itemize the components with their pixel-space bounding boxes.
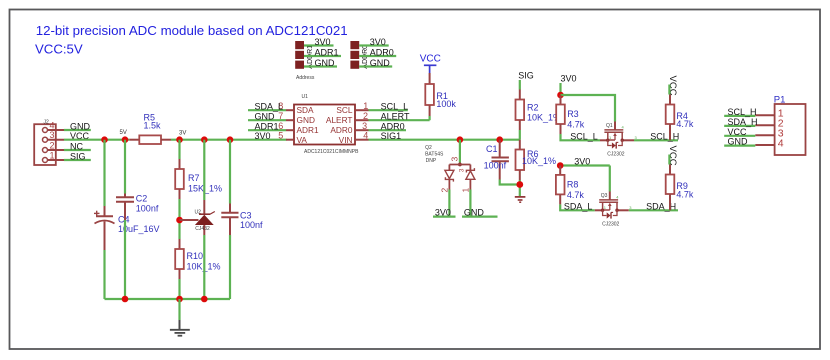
svg-text:SDA_H: SDA_H [728,117,758,127]
capacitor C1 [484,140,509,180]
svg-text:4: 4 [363,130,368,140]
svg-text:C4: C4 [118,215,130,225]
connector P1 [755,95,805,156]
svg-text:Address: Address [296,75,315,81]
svg-text:SCL_L: SCL_L [570,131,598,141]
capacitor C3 [221,204,263,236]
svg-text:4.7k: 4.7k [567,120,585,130]
wire Q2 pin1 to GND [469,190,471,217]
svg-text:4.7k: 4.7k [676,119,694,129]
svg-text:10K_1%: 10K_1% [522,156,556,166]
svg-text:1: 1 [363,101,368,111]
svg-text:SIG1: SIG1 [381,131,402,141]
svg-text:SCL: SCL [336,105,353,115]
svg-text:SCL_L: SCL_L [381,101,409,111]
svg-text:GND: GND [315,58,336,68]
svg-text:3V0: 3V0 [561,74,577,84]
svg-text:R8: R8 [567,179,579,189]
svg-text:100nf: 100nf [484,161,507,171]
IC U1 ADC121C021 [278,94,368,155]
svg-text:4: 4 [50,120,55,130]
svg-text:12-bit precision ADC module ba: 12-bit precision ADC module based on ADC… [36,23,348,38]
junction at R7 top [176,136,183,143]
svg-text:Q3: Q3 [601,193,608,199]
svg-text:R2: R2 [527,103,539,113]
wire Q2 pin2 to 3V0 [448,190,450,217]
svg-text:SDA_L: SDA_L [564,201,593,211]
svg-text:3V0: 3V0 [370,37,386,47]
resistor R4 [666,95,694,141]
svg-text:SDA_H: SDA_H [646,201,676,211]
svg-text:NC: NC [70,141,83,151]
node SCL_L (U1 pin1) [369,101,409,111]
ground symbol (under R6) [515,197,526,202]
wire ADDR0 pin1 to 3V0 [359,44,389,46]
junction bottom rail R10/ground [176,296,183,303]
svg-text:J2: J2 [44,120,50,126]
wire U2 anode to bottom rail [203,235,205,299]
resistor R3 [556,95,585,134]
svg-text:VCC:5V: VCC:5V [35,42,83,57]
svg-text:VCC: VCC [420,54,441,65]
wire R7 top [178,140,180,159]
svg-text:SDA_L: SDA_L [255,101,284,111]
svg-text:C1: C1 [486,144,498,154]
svg-text:1: 1 [460,188,470,193]
svg-text:DNP: DNP [426,158,437,164]
shunt reference U2 CJ432 [195,200,215,235]
junction at C4 top [101,136,108,143]
svg-text:GND: GND [464,207,485,217]
junction at C2 top [122,136,129,143]
svg-text:100nf: 100nf [240,220,263,230]
node GND (U1 pin7) [248,111,286,121]
wire C4 column [103,140,105,206]
resistor R5 [129,112,171,144]
ground symbol (main) [170,320,190,336]
svg-text:ADR0: ADR0 [330,125,353,135]
svg-text:4.7k: 4.7k [567,190,585,200]
wire R2 to SIG1 rail [519,130,521,140]
junction at U2 top [201,136,208,143]
junction C1/R6/ground [516,181,523,188]
svg-text:1.5k: 1.5k [144,120,162,130]
svg-text:5: 5 [278,130,283,140]
svg-text:C2: C2 [136,194,148,204]
svg-text:3: 3 [50,130,55,140]
svg-text:U1: U1 [302,94,309,100]
resistor R8 [556,166,585,205]
transistor Q3 CJ2302 [595,192,633,228]
wire ADDR0 pin2 to ADR0 [359,55,396,57]
wire ADDR1 pin2 to ADR1 [304,55,341,57]
svg-text:4: 4 [616,195,619,200]
body diode of Q3 [603,210,617,216]
node ALERT (U1 pin2) + wire to R1 [369,111,430,121]
capacitor C4 [94,206,160,250]
wire divider node to U2 ref [180,219,199,221]
junction bottom rail U2 [201,296,208,303]
wire R3 to SCL_L [561,134,601,140]
svg-text:GND: GND [370,58,391,68]
junction divider node [176,217,183,224]
svg-text:ADR1: ADR1 [297,125,320,135]
junction bottom rail C2 [122,296,129,303]
svg-text:P1: P1 [774,95,786,106]
wire R8 to SDA_L [560,204,595,210]
wire R10 to bottom rail [178,279,180,299]
svg-text:100nf: 100nf [136,204,159,214]
svg-text:VIN: VIN [339,135,353,145]
wire C1 bottom to R6 bottom junction [500,180,520,185]
wire ADDR1 pin1 to 3V0 [304,44,334,46]
wire Q1 drain to SCL_H [634,139,678,141]
resistor R7 [175,159,222,199]
svg-text:100k: 100k [436,99,456,109]
node GND (P1 pin4) [724,137,755,147]
wire Q2 common drop [459,140,461,163]
wire R6 to ground junction [519,180,521,196]
node SDA_H (P1 pin2) [724,117,757,127]
svg-text:GND: GND [70,121,91,131]
wire R5 to IC VA (3V0 rail) [171,139,287,141]
svg-text:CJ2302: CJ2302 [602,222,619,228]
wire C2 to bottom rail [124,220,126,299]
wire Q3 drain to SDA_H [629,209,678,211]
svg-text:4.7k: 4.7k [676,190,694,200]
resistor R2 [516,90,562,131]
wire ADDR0 pin3 to GND [359,65,392,67]
resistor R6 [516,140,557,180]
node VCC (top of R9, rotated) [667,146,678,166]
svg-text:C3: C3 [240,211,252,221]
title text [35,23,348,57]
wire C2 column [124,140,126,194]
svg-text:5V: 5V [120,130,127,136]
svg-text:ALERT: ALERT [326,115,353,125]
power flag VCC (top of R1) [420,54,441,73]
body diode of Q1 [608,140,622,146]
wire C3 column [229,140,231,204]
svg-text:3V: 3V [179,131,186,137]
node ADR0 (U1 pin3) [369,121,407,131]
wire 3V0 to Q3 gate [609,166,611,192]
junction 3V0/R3/gate [557,92,564,99]
transistor Q1 CJ2302 [600,122,638,158]
wire ground drop [178,299,180,320]
svg-text:4: 4 [622,125,625,130]
resistor R9 [666,165,694,211]
svg-text:Q2: Q2 [425,145,432,151]
node VCC (top of R4, rotated) [667,76,678,96]
node SCL_H (P1 pin1) [724,107,756,117]
resistor R10 [175,239,220,279]
junction SIG1/C1 [496,136,503,143]
node SDA_L (U1 pin8) [248,101,286,111]
svg-text:SIG: SIG [518,70,534,80]
svg-text:SCL_H: SCL_H [650,131,679,141]
svg-text:3: 3 [459,168,466,172]
svg-text:3: 3 [450,157,460,162]
wire ADDR1 pin3 to GND [304,65,337,67]
node SIG1 (U1 pin4) wire [369,131,521,141]
svg-text:2: 2 [363,111,368,121]
svg-text:VCC: VCC [728,127,748,137]
svg-text:ADC121C021CIMMNPB: ADC121C021CIMMNPB [304,149,359,155]
wire R7 to divider node [178,199,180,239]
svg-text:SDA: SDA [297,105,315,115]
wire bottom rail [105,298,231,300]
node ADR1 (U1 pin6) [248,121,286,131]
wire C3 to bottom rail [229,235,231,299]
svg-text:ADR1: ADR1 [315,48,339,58]
svg-text:3V0: 3V0 [255,131,271,141]
svg-text:R3: R3 [567,109,579,119]
header ADDR0 [350,41,369,69]
svg-text:1: 1 [50,150,55,160]
svg-text:3: 3 [362,121,367,131]
svg-text:4: 4 [778,137,784,149]
svg-text:3V0: 3V0 [435,207,451,217]
connector J2 [34,120,64,166]
wire J2 VCC to R5 [64,139,129,141]
svg-text:BAT54S: BAT54S [425,152,444,158]
svg-text:CJ432: CJ432 [195,226,210,232]
junction 3V0/R8 [557,162,564,169]
svg-text:VA: VA [297,135,308,145]
wire U2 cathode from rail [203,140,205,200]
node SIG (J2 pin1) [64,151,91,161]
svg-text:U2: U2 [195,209,202,215]
junction SIG1/Q2 [457,136,464,143]
svg-text:R10: R10 [187,251,204,261]
svg-text:GND: GND [297,115,315,125]
svg-text:2: 2 [50,140,55,150]
capacitor C2 [116,194,159,221]
svg-text:ALERT: ALERT [381,111,410,121]
junction at C3 top [227,136,234,143]
svg-text:CJ2302: CJ2302 [607,152,624,158]
svg-text:3V0: 3V0 [315,37,331,47]
diode pair Q2 BAT54S [425,145,475,193]
node 3V0 (under Q2) [433,207,456,217]
node SIG (top of R2) [518,70,534,89]
wire C4 to bottom rail [103,250,105,299]
svg-text:2: 2 [439,188,449,193]
svg-text:ADR1: ADR1 [255,121,279,131]
node GND (J2 pin4) [64,121,91,131]
svg-text:SCL_H: SCL_H [728,107,757,117]
resistor R1 [425,73,456,116]
node 3V0 (SCL level shifter) [561,74,577,96]
svg-text:GND: GND [728,137,749,147]
header ADDR1 [295,41,314,69]
wire 3V0 to Q1 gate [561,95,616,122]
diode D-right (anode to GND, cathode to node) [466,168,474,172]
node VCC (P1 pin3) [724,127,755,137]
node NC (J2 pin2) [64,141,91,151]
svg-text:3V0: 3V0 [574,157,590,167]
svg-text:ADR0: ADR0 [370,48,394,58]
svg-text:R7: R7 [188,173,200,183]
svg-text:Q1: Q1 [606,123,613,129]
svg-text:GND: GND [255,111,276,121]
node 3V0 (SDA level shifter) [557,157,610,167]
svg-text:ADR0: ADR0 [381,121,405,131]
diode D-left (anode to node, cathode to 3V0) [445,170,454,178]
svg-text:SIG: SIG [70,151,86,161]
node GND (under Q2) [462,207,498,217]
